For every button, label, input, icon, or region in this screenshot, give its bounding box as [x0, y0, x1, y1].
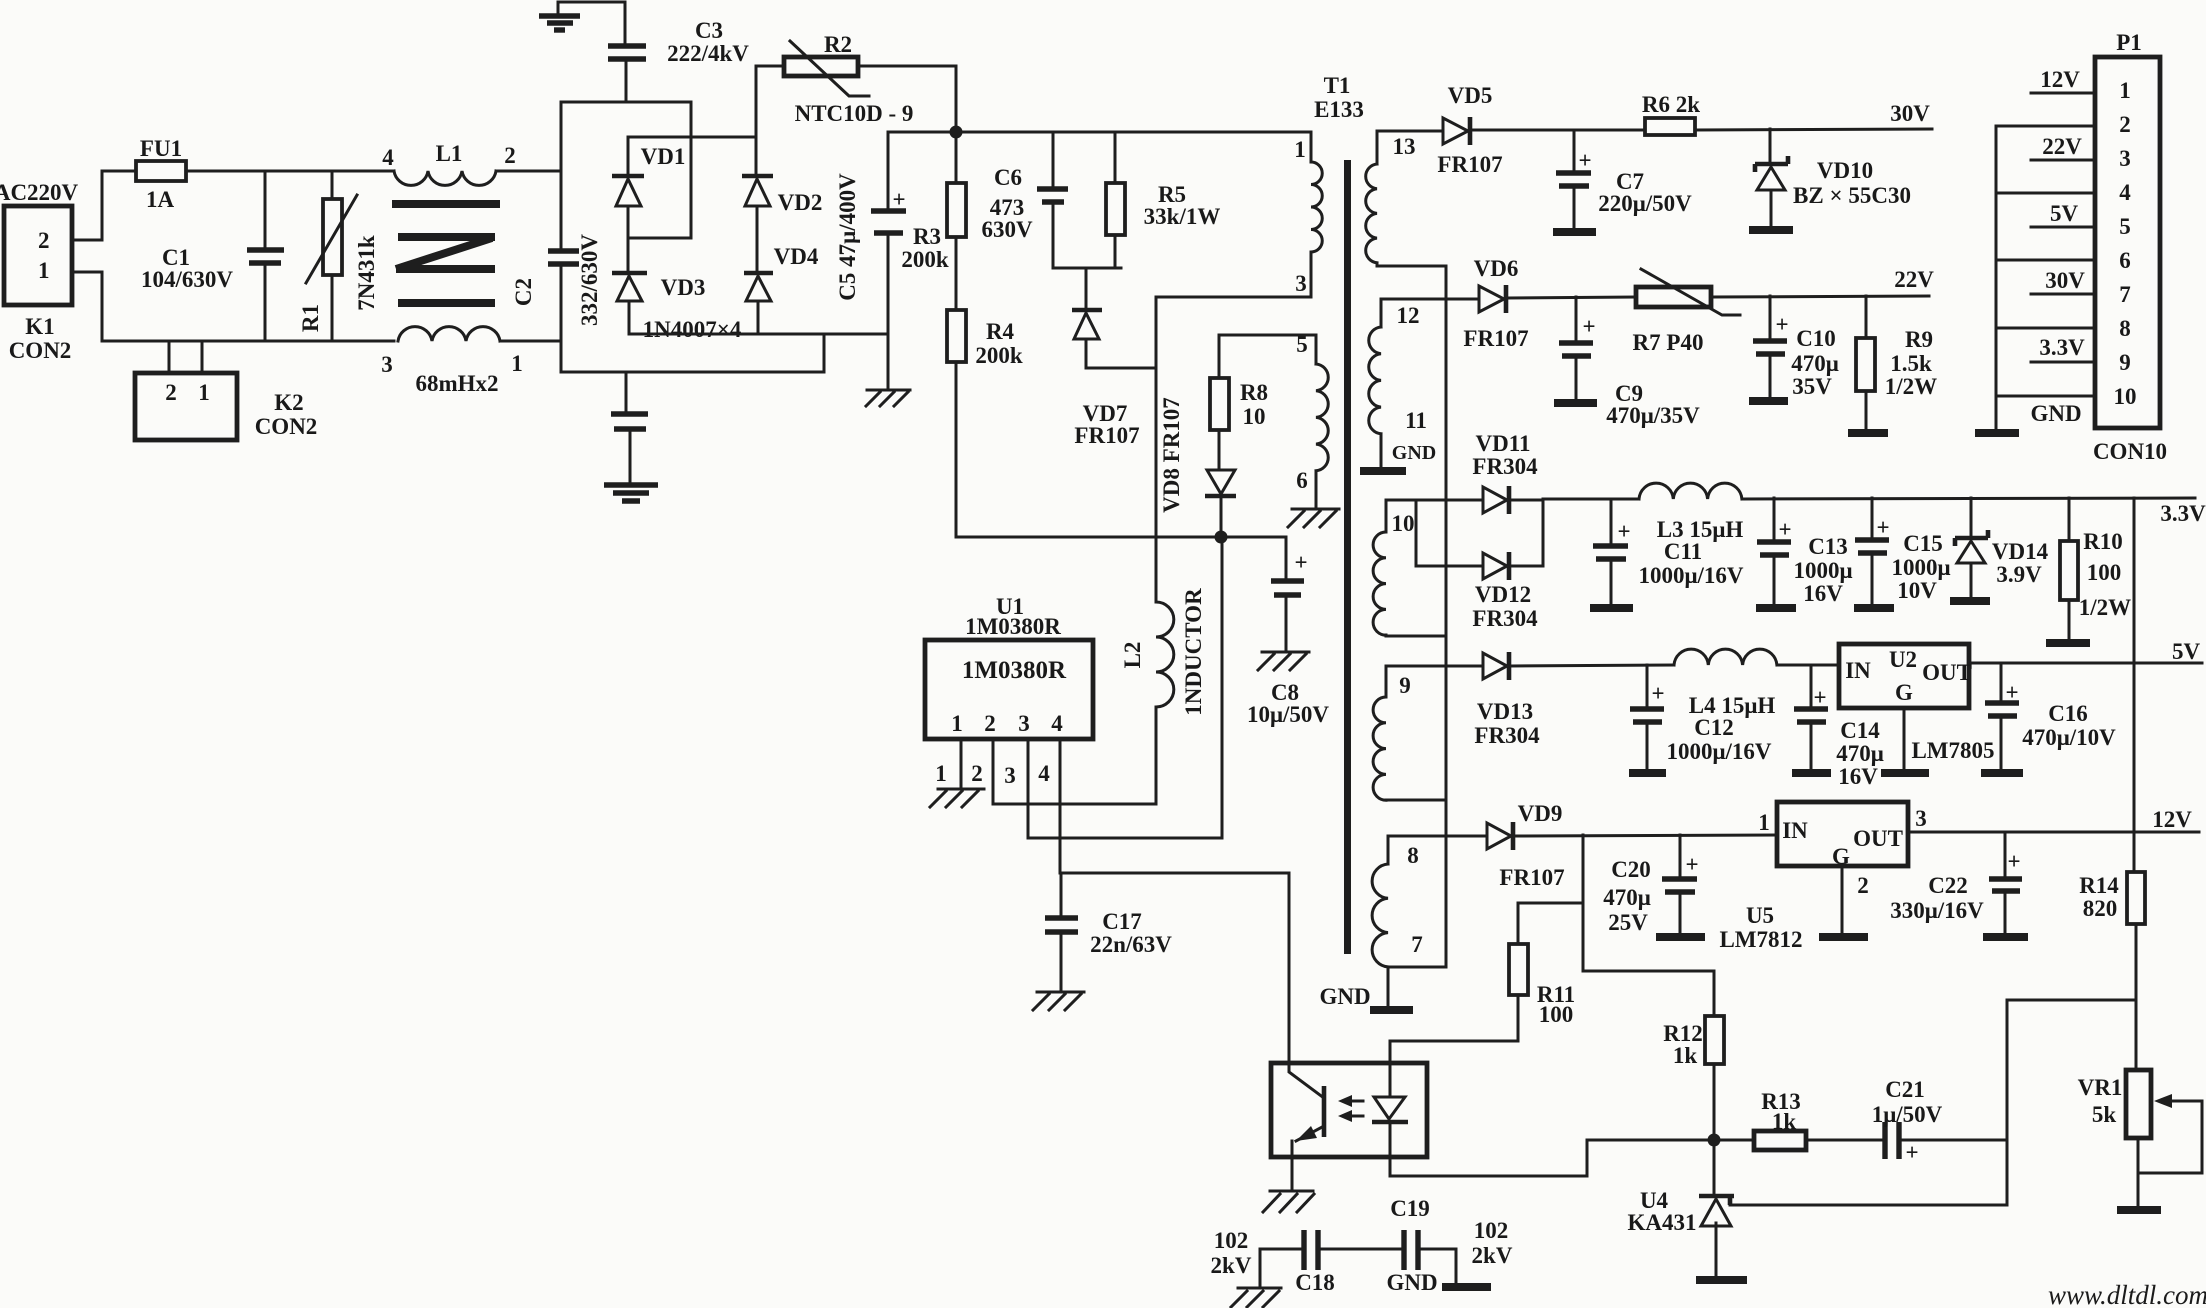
svg-text:3: 3 — [1004, 763, 1016, 788]
svg-text:FR107: FR107 — [1437, 152, 1502, 177]
svg-text:R4: R4 — [986, 319, 1015, 344]
svg-text:6: 6 — [1296, 468, 1308, 493]
svg-text:L1: L1 — [436, 141, 463, 166]
svg-text:1000μ/16V: 1000μ/16V — [1638, 563, 1743, 588]
svg-text:30V: 30V — [1890, 101, 1930, 126]
svg-text:C20: C20 — [1611, 857, 1651, 882]
svg-text:2: 2 — [1857, 873, 1869, 898]
svg-text:2kV: 2kV — [1472, 1243, 1513, 1268]
svg-text:T1: T1 — [1324, 73, 1351, 98]
svg-text:10μ/50V: 10μ/50V — [1247, 702, 1329, 727]
svg-text:OUT: OUT — [1853, 826, 1903, 851]
svg-text:+: + — [2007, 849, 2020, 874]
svg-text:1000μ: 1000μ — [1891, 555, 1950, 580]
svg-text:22V: 22V — [1894, 267, 1934, 292]
svg-text:+: + — [1685, 852, 1698, 877]
svg-text:2: 2 — [504, 143, 516, 168]
svg-text:+: + — [1813, 685, 1826, 710]
svg-text:25V: 25V — [1608, 910, 1648, 935]
svg-text:C19: C19 — [1390, 1196, 1430, 1221]
svg-text:3.9V: 3.9V — [1996, 562, 2042, 587]
svg-text:KA431: KA431 — [1628, 1210, 1697, 1235]
svg-text:4: 4 — [1038, 761, 1050, 786]
svg-text:68mHx2: 68mHx2 — [415, 371, 498, 396]
svg-text:5V: 5V — [2172, 639, 2201, 664]
svg-text:C18: C18 — [1295, 1270, 1335, 1295]
svg-text:9: 9 — [1399, 673, 1411, 698]
svg-text:10: 10 — [1243, 404, 1266, 429]
svg-text:C14: C14 — [1840, 718, 1880, 743]
svg-text:C22: C22 — [1928, 873, 1968, 898]
svg-text:470μ/35V: 470μ/35V — [1606, 403, 1700, 428]
svg-text:C21: C21 — [1885, 1077, 1925, 1102]
svg-text:470μ: 470μ — [1603, 885, 1651, 910]
svg-text:102: 102 — [1474, 1218, 1509, 1243]
svg-text:CON2: CON2 — [9, 338, 72, 363]
svg-text:10: 10 — [1392, 511, 1415, 536]
svg-text:9: 9 — [2119, 350, 2131, 375]
svg-text:C6: C6 — [994, 165, 1022, 190]
svg-text:1M0380R: 1M0380R — [965, 614, 1061, 639]
svg-text:G: G — [1895, 680, 1913, 705]
svg-text:www.dltdl.com: www.dltdl.com — [2048, 1280, 2206, 1308]
svg-text:4: 4 — [2119, 180, 2131, 205]
svg-text:2: 2 — [165, 380, 177, 405]
svg-text:VD10: VD10 — [1817, 158, 1873, 183]
svg-text:16V: 16V — [1838, 764, 1878, 789]
svg-text:3: 3 — [2119, 146, 2131, 171]
svg-text:C15: C15 — [1903, 531, 1943, 556]
svg-text:C2: C2 — [511, 278, 536, 306]
svg-text:VD8 FR107: VD8 FR107 — [1159, 397, 1184, 513]
svg-text:U2: U2 — [1889, 647, 1917, 672]
svg-text:8: 8 — [1407, 843, 1419, 868]
svg-text:FR304: FR304 — [1472, 454, 1538, 479]
svg-text:220μ/50V: 220μ/50V — [1598, 191, 1692, 216]
svg-text:3.3V: 3.3V — [2160, 501, 2206, 526]
svg-text:IN: IN — [1845, 658, 1871, 683]
svg-text:VD4: VD4 — [774, 244, 819, 269]
svg-text:33k/1W: 33k/1W — [1144, 204, 1221, 229]
svg-text:L2: L2 — [1120, 642, 1145, 669]
svg-text:C12: C12 — [1694, 715, 1734, 740]
svg-text:1μ/50V: 1μ/50V — [1872, 1102, 1943, 1127]
svg-text:+: + — [1775, 312, 1788, 337]
svg-text:VD5: VD5 — [1448, 83, 1493, 108]
svg-text:470μ/10V: 470μ/10V — [2022, 725, 2116, 750]
svg-text:GND: GND — [1319, 984, 1370, 1009]
svg-text:VD6: VD6 — [1474, 256, 1519, 281]
svg-text:10: 10 — [2114, 384, 2137, 409]
svg-text:1000μ/16V: 1000μ/16V — [1666, 739, 1771, 764]
svg-text:VD2: VD2 — [778, 190, 823, 215]
svg-text:R6 2k: R6 2k — [1642, 92, 1700, 117]
svg-text:1: 1 — [951, 711, 963, 736]
svg-text:VD12: VD12 — [1475, 582, 1531, 607]
svg-text:22V: 22V — [2042, 134, 2082, 159]
svg-text:2: 2 — [38, 228, 50, 253]
svg-text:200k: 200k — [975, 343, 1023, 368]
svg-text:10V: 10V — [1897, 578, 1937, 603]
svg-text:GND: GND — [2030, 401, 2081, 426]
svg-text:12V: 12V — [2152, 807, 2192, 832]
svg-text:13: 13 — [1393, 134, 1416, 159]
svg-text:R3: R3 — [913, 224, 941, 249]
svg-text:VD3: VD3 — [661, 275, 706, 300]
svg-text:7: 7 — [1411, 932, 1423, 957]
svg-text:12: 12 — [1397, 303, 1420, 328]
svg-text:R7 P40: R7 P40 — [1633, 330, 1704, 355]
svg-text:7: 7 — [2119, 282, 2131, 307]
svg-text:12V: 12V — [2040, 67, 2080, 92]
svg-text:1: 1 — [1294, 137, 1306, 162]
svg-text:BZ × 55C30: BZ × 55C30 — [1793, 183, 1911, 208]
svg-text:5: 5 — [1296, 332, 1308, 357]
svg-text:FR107: FR107 — [1499, 865, 1564, 890]
svg-text:CON2: CON2 — [255, 414, 318, 439]
svg-text:2: 2 — [971, 761, 983, 786]
svg-text:2: 2 — [984, 711, 996, 736]
svg-text:OUT: OUT — [1922, 660, 1972, 685]
svg-text:LM7812: LM7812 — [1719, 927, 1802, 952]
svg-text:3: 3 — [381, 352, 393, 377]
svg-text:C3: C3 — [695, 18, 723, 43]
svg-text:C5 47μ/400V: C5 47μ/400V — [835, 173, 860, 301]
svg-text:R14: R14 — [2079, 873, 2119, 898]
svg-text:P1: P1 — [2116, 30, 2142, 55]
svg-text:1NDUCTOR: 1NDUCTOR — [1181, 588, 1206, 716]
svg-text:C10: C10 — [1796, 326, 1836, 351]
svg-text:NTC10D - 9: NTC10D - 9 — [795, 101, 914, 126]
svg-text:C11: C11 — [1664, 539, 1702, 564]
svg-text:+: + — [892, 187, 905, 212]
svg-text:GND: GND — [1392, 442, 1436, 464]
svg-text:3.3V: 3.3V — [2039, 335, 2085, 360]
svg-text:11: 11 — [1405, 408, 1427, 433]
svg-text:1: 1 — [511, 351, 523, 376]
svg-text:IN: IN — [1782, 818, 1808, 843]
svg-text:332/630V: 332/630V — [577, 234, 602, 326]
svg-text:+: + — [1582, 314, 1595, 339]
svg-text:GND: GND — [1386, 1270, 1437, 1295]
svg-text:30V: 30V — [2045, 268, 2085, 293]
svg-text:1: 1 — [935, 761, 947, 786]
svg-text:E133: E133 — [1314, 97, 1364, 122]
svg-text:1: 1 — [38, 258, 50, 283]
svg-text:6: 6 — [2119, 248, 2131, 273]
svg-text:3: 3 — [1018, 711, 1030, 736]
svg-text:470μ: 470μ — [1791, 351, 1839, 376]
svg-text:FR107: FR107 — [1463, 326, 1528, 351]
svg-text:VD11: VD11 — [1476, 431, 1531, 456]
svg-text:4: 4 — [1051, 711, 1063, 736]
svg-text:200k: 200k — [901, 247, 949, 272]
svg-text:FR304: FR304 — [1472, 606, 1538, 631]
svg-text:100: 100 — [1539, 1002, 1574, 1027]
svg-text:VD9: VD9 — [1518, 801, 1563, 826]
svg-text:3: 3 — [1915, 806, 1927, 831]
svg-text:104/630V: 104/630V — [141, 267, 233, 292]
svg-text:1/2W: 1/2W — [2079, 595, 2131, 620]
svg-text:16V: 16V — [1803, 581, 1843, 606]
svg-text:100: 100 — [2087, 560, 2122, 585]
svg-text:VD13: VD13 — [1477, 699, 1533, 724]
svg-text:5V: 5V — [2050, 201, 2079, 226]
svg-text:+: + — [1651, 681, 1664, 706]
svg-text:630V: 630V — [981, 217, 1033, 242]
svg-text:FR304: FR304 — [1474, 723, 1540, 748]
svg-text:K1: K1 — [25, 314, 54, 339]
svg-text:8: 8 — [2119, 316, 2131, 341]
svg-text:820: 820 — [2083, 896, 2118, 921]
svg-text:102: 102 — [1214, 1228, 1249, 1253]
svg-text:1A: 1A — [146, 187, 175, 212]
svg-text:5k: 5k — [2092, 1102, 2117, 1127]
svg-text:VD1: VD1 — [641, 144, 686, 169]
svg-text:470μ: 470μ — [1836, 741, 1884, 766]
svg-text:35V: 35V — [1792, 374, 1832, 399]
svg-text:FR107: FR107 — [1074, 423, 1139, 448]
svg-text:1.5k: 1.5k — [1890, 351, 1932, 376]
svg-text:2kV: 2kV — [1211, 1253, 1252, 1278]
svg-text:R10: R10 — [2083, 529, 2123, 554]
svg-text:330μ/16V: 330μ/16V — [1890, 898, 1984, 923]
svg-text:LM7805: LM7805 — [1911, 738, 1994, 763]
svg-text:7N431k: 7N431k — [354, 235, 379, 311]
svg-text:222/4kV: 222/4kV — [667, 41, 749, 66]
svg-text:+: + — [1294, 550, 1307, 575]
svg-text:R2: R2 — [824, 32, 852, 57]
svg-text:C16: C16 — [2048, 701, 2088, 726]
svg-text:2: 2 — [2119, 112, 2131, 137]
svg-text:1000μ: 1000μ — [1793, 558, 1852, 583]
svg-text:VR1: VR1 — [2078, 1075, 2123, 1100]
svg-text:+: + — [1905, 1140, 1918, 1165]
svg-text:22n/63V: 22n/63V — [1090, 932, 1172, 957]
svg-text:CON10: CON10 — [2093, 439, 2167, 464]
svg-text:1N4007×4: 1N4007×4 — [643, 317, 742, 342]
svg-text:4: 4 — [382, 145, 394, 170]
svg-text:+: + — [1778, 517, 1791, 542]
svg-text:R1: R1 — [298, 304, 323, 332]
svg-text:1k: 1k — [1673, 1043, 1698, 1068]
svg-text:1: 1 — [2119, 78, 2131, 103]
svg-text:FU1: FU1 — [140, 136, 182, 161]
svg-text:+: + — [1617, 519, 1630, 544]
svg-text:1k: 1k — [1772, 1109, 1797, 1134]
svg-text:R8: R8 — [1240, 380, 1268, 405]
svg-text:1M0380R: 1M0380R — [962, 657, 1067, 684]
svg-text:3: 3 — [1295, 271, 1307, 296]
svg-text:K2: K2 — [274, 390, 303, 415]
svg-text:U5: U5 — [1746, 903, 1774, 928]
svg-text:AC220V: AC220V — [0, 180, 79, 205]
svg-text:+: + — [1578, 148, 1591, 173]
svg-text:5: 5 — [2119, 214, 2131, 239]
svg-text:C17: C17 — [1102, 909, 1142, 934]
svg-text:1: 1 — [1758, 810, 1770, 835]
svg-text:+: + — [1876, 515, 1889, 540]
svg-text:1: 1 — [198, 380, 210, 405]
svg-text:1/2W: 1/2W — [1885, 374, 1937, 399]
svg-text:C13: C13 — [1808, 534, 1848, 559]
svg-text:VD14: VD14 — [1992, 539, 2049, 564]
svg-text:R9: R9 — [1905, 327, 1933, 352]
